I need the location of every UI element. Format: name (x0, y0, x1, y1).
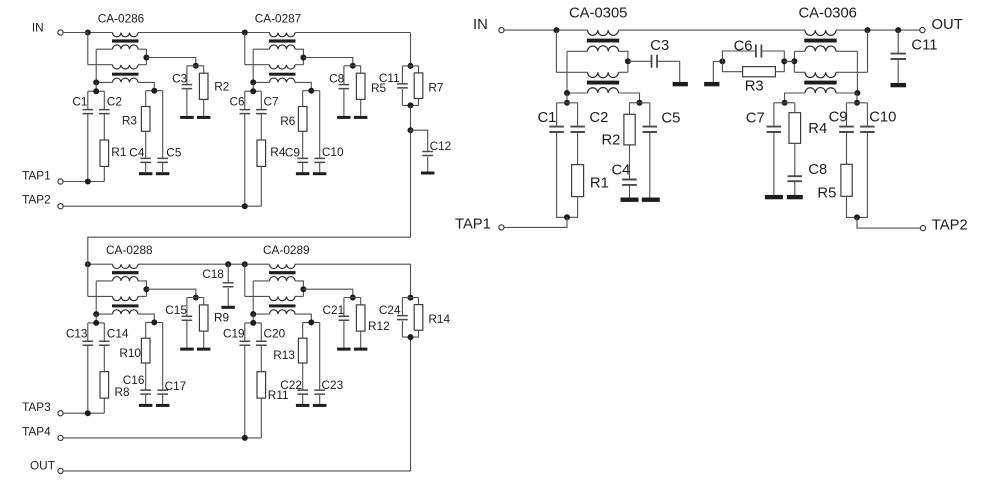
transformer CA-0286 (88, 33, 155, 91)
capacitor C7 (256, 91, 279, 140)
wire input rail row CA-0286 (88, 32, 113, 34)
svg-text:C10: C10 (322, 145, 344, 159)
node R10/C17 rail (146, 319, 163, 325)
CA-0306 core lower bar (804, 81, 836, 85)
ground under C17 (156, 404, 170, 407)
CA-0289 left winding vertical wire (252, 281, 254, 314)
capacitor C8 (right) (788, 143, 828, 195)
transformer CA-0306 (785, 30, 868, 102)
CA-0289 core upper bar (269, 271, 296, 274)
wire lower rail down to C24/R14 (410, 264, 412, 297)
ground under C4 (139, 172, 153, 175)
CA-0287 left winding vertical wire (252, 49, 254, 82)
CA-0287 primary winding (270, 33, 296, 37)
capacitor C21 (323, 298, 350, 348)
CA-0305 tertiary outer lead wire (619, 93, 640, 103)
CA-0286 primary winding (113, 33, 139, 37)
capacitor C10 (right) (857, 103, 896, 218)
CA-0287 tertiary winding (270, 78, 296, 82)
ground under C5 (right) (642, 198, 660, 202)
transformer CA-0287 (245, 33, 311, 91)
CA-0289 core lower bar (269, 304, 296, 307)
CA-0288 secondary winding upper (113, 277, 139, 281)
ground under C8 (337, 116, 351, 119)
CA-0306 secondary winding lower (805, 72, 836, 77)
node C24/R14 top (402, 295, 418, 301)
resistor R13 (273, 322, 307, 363)
svg-text:C7: C7 (746, 111, 765, 127)
ground under C8 (787, 195, 803, 199)
CA-0289 secondary winding lower (270, 296, 296, 300)
wire TAP1 (63, 181, 104, 183)
wire IN rail (right circuit) (504, 29, 588, 31)
CA-0305 core upper bar (587, 39, 619, 43)
wire IN lead (63, 32, 88, 34)
node C11/R7 top (402, 63, 418, 69)
svg-text:R9: R9 (214, 311, 229, 325)
svg-text:C17: C17 (165, 379, 187, 393)
svg-text:C1: C1 (538, 110, 557, 126)
svg-text:R1: R1 (590, 175, 609, 191)
node C15/R9 junction (187, 295, 204, 301)
svg-text:C5: C5 (661, 111, 680, 127)
capacitor C7 (right) (746, 103, 781, 195)
CA-0305 secondary winding lower (588, 72, 619, 78)
node rail/CA-0286 (85, 30, 91, 36)
svg-text:C4: C4 (612, 162, 631, 178)
CA-0288 tap node (143, 286, 149, 292)
capacitor C5 (right) (643, 103, 681, 198)
svg-text:R5: R5 (817, 186, 836, 202)
capacitor C6 (right) (722, 38, 784, 61)
capacitor C19 (223, 323, 250, 438)
CA-0289 tertiary left node (250, 311, 256, 317)
CA-0287 secondary winding lower (270, 65, 296, 69)
node C1/C2 rail (right) (557, 93, 578, 106)
capacitor C18 (202, 264, 233, 306)
svg-text:C11: C11 (911, 38, 937, 54)
CA-0306 winding vertical wire (856, 51, 858, 93)
ground under C22 (296, 404, 310, 407)
svg-text:C1: C1 (72, 95, 87, 109)
svg-text:C4: C4 (129, 145, 145, 159)
CA-0289 secondary loop wires (253, 280, 269, 282)
capacitor C20 (256, 323, 286, 372)
svg-text:CA-0286: CA-0286 (98, 12, 145, 26)
capacitor C1 (72, 91, 93, 181)
capacitor C3 (172, 66, 192, 116)
capacitor C23 (314, 322, 343, 404)
svg-text:C20: C20 (264, 326, 286, 340)
CA-0305 tertiary winding (588, 88, 619, 93)
svg-text:C15: C15 (165, 303, 187, 317)
CA-0286 tertiary right lead wire (138, 82, 154, 90)
svg-text:R2: R2 (602, 133, 621, 149)
node C13/C14 rail (88, 314, 105, 326)
svg-text:C14: C14 (107, 326, 129, 340)
node C3/R2 junction (187, 63, 204, 69)
svg-text:R1: R1 (111, 145, 126, 159)
node R5/C10/TAP2 junction (854, 214, 860, 220)
capacitor C15 (165, 298, 192, 348)
svg-text:R3: R3 (122, 113, 138, 127)
svg-text:C21: C21 (323, 303, 345, 317)
CA-0287 secondary loop wires (253, 48, 269, 50)
svg-text:TAP2: TAP2 (22, 193, 51, 207)
svg-text:TAP1: TAP1 (22, 169, 51, 183)
CA-0288 primary winding (113, 264, 139, 268)
svg-text:C8: C8 (808, 162, 827, 178)
svg-text:CA-0305: CA-0305 (569, 6, 627, 22)
svg-text:C8: C8 (329, 72, 345, 86)
terminal OUT (left circuit) (58, 468, 63, 473)
CA-0305 tap node (625, 58, 631, 64)
ground under C7 (765, 195, 783, 199)
CA-0288 secondary winding lower (113, 296, 139, 300)
svg-text:R2: R2 (214, 80, 229, 94)
ground under C12 (421, 172, 435, 175)
wire TAP2 (63, 205, 261, 207)
node rail/C11 (right) (895, 27, 901, 33)
resistor R1 (right) (567, 165, 609, 218)
CA-0289 secondary winding upper (270, 277, 296, 281)
resistor R4 (right) (789, 103, 827, 144)
CA-0306 tertiary inner node (854, 90, 860, 96)
capacitor C11 (379, 66, 408, 106)
svg-text:TAP3: TAP3 (22, 400, 51, 414)
CA-0288 left winding vertical wire (95, 281, 97, 314)
node C6/R3 right (781, 58, 787, 64)
CA-0287 secondary winding upper (270, 45, 296, 49)
svg-text:TAP4: TAP4 (22, 424, 51, 438)
CA-0287 tertiary left node (250, 79, 256, 85)
CA-0306 input vertical wire (867, 30, 869, 72)
svg-text:C3: C3 (172, 72, 188, 86)
svg-text:C23: C23 (322, 378, 344, 392)
capacitor C1 (right) (538, 103, 568, 218)
svg-text:C13: C13 (66, 326, 88, 340)
terminal TAP3 (58, 411, 63, 416)
resistor R1 (100, 140, 126, 182)
wire tap to C3/R2 (146, 58, 195, 66)
CA-0306 tertiary winding (805, 88, 836, 93)
svg-text:C5: C5 (166, 145, 182, 159)
svg-text:C9: C9 (829, 109, 848, 125)
CA-0306 secondary winding upper (805, 46, 836, 51)
svg-text:R12: R12 (368, 319, 390, 333)
ground under R9 (197, 348, 211, 351)
capacitor C17 (157, 322, 186, 404)
CA-0288 core lower bar (112, 304, 139, 307)
transformer CA-0288 (88, 264, 155, 322)
resistor R2 (199, 66, 229, 116)
node C7/R4 rail (774, 100, 795, 106)
CA-0305 primary winding (588, 30, 619, 35)
CA-0287 tertiary right lead wire (295, 82, 311, 90)
svg-text:R6: R6 (280, 114, 296, 128)
node C24/R14 bottom (402, 334, 418, 340)
CA-0288 input vertical wire (87, 264, 89, 296)
resistor R4 (257, 140, 286, 206)
wire TAP4 (63, 437, 261, 439)
svg-text:C6: C6 (734, 38, 753, 54)
ground under C3 (180, 116, 194, 119)
CA-0286 core upper bar (112, 39, 139, 42)
node C6/R3 left (719, 58, 725, 64)
svg-text:CA-0306: CA-0306 (799, 6, 857, 22)
wire TAP3 (63, 412, 104, 414)
svg-text:CA-0288: CA-0288 (106, 243, 153, 257)
ground stub for C6/R3 (704, 61, 722, 86)
capacitor C12 (411, 130, 452, 171)
svg-text:R14: R14 (428, 312, 450, 326)
CA-0305 secondary winding upper (588, 46, 619, 52)
node rail/CA-0289 (242, 261, 248, 267)
ground under C11 (right) (891, 83, 907, 87)
ground under C3 (right) (673, 82, 688, 86)
svg-text:C16: C16 (123, 373, 145, 387)
svg-text:R7: R7 (428, 81, 443, 95)
terminal TAP1 (58, 179, 63, 184)
svg-text:IN: IN (32, 21, 44, 35)
CA-0289 primary winding (270, 264, 296, 268)
ground under C18 (221, 306, 235, 309)
resistor R3 (122, 91, 150, 132)
resistor R3 (right) (722, 61, 784, 94)
capacitor C24 (379, 298, 408, 338)
CA-0306 secondary loop wires (836, 50, 857, 52)
svg-text:OUT: OUT (932, 17, 963, 33)
svg-text:TAP1: TAP1 (455, 217, 491, 233)
CA-0305 winding vertical wire (566, 51, 568, 93)
svg-text:TAP2: TAP2 (932, 218, 968, 234)
capacitor C4 (129, 131, 151, 172)
svg-text:C18: C18 (202, 267, 224, 281)
ground under C15 (180, 348, 194, 351)
node C9/C10 rail (847, 93, 868, 106)
CA-0305 secondary loop wires (567, 50, 588, 52)
capacitor C10 (314, 91, 344, 173)
wire upper block output to lower block input (88, 130, 411, 264)
terminal TAP2 (right) (920, 226, 925, 231)
wire rail down to C11/R7 (410, 33, 412, 66)
CA-0286 left winding vertical wire (95, 49, 97, 82)
terminal TAP2 (58, 204, 63, 209)
CA-0288 tertiary right lead wire (138, 314, 154, 322)
svg-text:R13: R13 (273, 348, 295, 362)
svg-text:R4: R4 (808, 121, 827, 137)
resistor R5 (right) (817, 164, 857, 217)
CA-0289 input vertical wire (244, 264, 246, 296)
CA-0288 tertiary left node (93, 311, 99, 317)
CA-0286 tap node (143, 55, 149, 61)
transformer CA-0289 (245, 264, 311, 322)
CA-0286 tertiary left node (93, 79, 99, 85)
resistor R11 (257, 372, 289, 438)
node C1/C2 rail (88, 82, 105, 94)
svg-text:OUT: OUT (30, 459, 55, 473)
CA-0286 secondary loop wires (96, 48, 112, 50)
ground under C5 (156, 172, 170, 175)
capacitor C2 (99, 91, 122, 140)
CA-0289 tertiary right lead wire (295, 314, 311, 322)
node C21/R12 junction (344, 295, 361, 301)
node R2/C5 rail (right) (630, 100, 650, 106)
CA-0287 input vertical wire (244, 33, 246, 65)
svg-text:C12: C12 (430, 139, 452, 153)
CA-0287 tap node (300, 55, 306, 61)
capacitor C14 (99, 323, 129, 372)
capacitor C8 (329, 66, 349, 116)
capacitor C11 (right) (891, 30, 938, 83)
node R13/C23 rail (303, 319, 320, 325)
CA-0286 input vertical wire (87, 33, 89, 65)
resistor R2 (right) (602, 103, 636, 149)
terminal IN (right circuit) (499, 28, 504, 33)
CA-0288 tertiary winding (113, 310, 139, 314)
CA-0286 core lower bar (112, 73, 139, 76)
CA-0306 primary winding (805, 30, 836, 35)
node C1/R1/TAP1 junction (564, 214, 570, 220)
svg-text:C6: C6 (230, 95, 246, 109)
svg-text:R10: R10 (119, 346, 141, 360)
resistor R5 (356, 66, 386, 116)
capacitor C5 (157, 91, 182, 173)
capacitor C4 (right) (612, 145, 637, 198)
capacitor C13 (66, 323, 93, 413)
capacitor C2 (right) (570, 103, 608, 165)
transformer CA-0305 (556, 30, 639, 102)
node TAP1/C1 (85, 179, 91, 185)
svg-text:C11: C11 (379, 71, 400, 85)
svg-text:R3: R3 (745, 78, 764, 94)
ground under R2 (197, 116, 211, 119)
node C8/R5 junction (344, 63, 361, 69)
svg-text:C3: C3 (650, 38, 669, 54)
wire tap to C8/R5 (303, 58, 352, 66)
node C12 junction (408, 127, 414, 133)
CA-0306 core upper bar (804, 39, 836, 43)
node TAP4/C19 (242, 435, 248, 441)
node rail/CA-0305 (553, 27, 559, 33)
resistor R12 (356, 298, 389, 348)
CA-0305 tertiary inner node (564, 90, 570, 96)
capacitor C16 (123, 363, 151, 404)
svg-text:C24: C24 (379, 303, 401, 317)
ground under C4 (right) (621, 198, 639, 202)
ground under C16 (139, 404, 153, 407)
wire TAP2 (right) (857, 217, 921, 228)
CA-0288 secondary loop wires (96, 280, 112, 282)
node C6/C7 rail (245, 82, 261, 94)
resistor R7 (414, 66, 443, 106)
svg-text:CA-0289: CA-0289 (263, 243, 310, 257)
wire input rail row CA-0288 (88, 263, 113, 265)
svg-text:CA-0287: CA-0287 (255, 12, 302, 26)
wire TAP1 (right) (504, 217, 567, 227)
ground under C10 (313, 172, 327, 175)
node R3/C5 rail (146, 88, 163, 94)
ground under R5 (354, 116, 368, 119)
svg-text:C2: C2 (589, 110, 608, 126)
svg-text:C19: C19 (223, 326, 245, 340)
CA-0306 tertiary outer lead wire (785, 93, 805, 103)
CA-0305 input vertical wire (555, 30, 557, 72)
node rail/CA-0287 (242, 30, 248, 36)
ground under C21 (337, 348, 351, 351)
terminal IN (left circuit) (58, 30, 63, 35)
capacitor C22 (280, 363, 308, 404)
resistor R8 (100, 372, 130, 414)
wire C6/R3 to CA-0306 tap (784, 60, 794, 62)
resistor R10 (119, 322, 150, 363)
CA-0288 core upper bar (112, 271, 139, 274)
capacitor C6 (230, 91, 251, 206)
wire to C12 junction (410, 105, 412, 130)
CA-0287 core upper bar (269, 39, 296, 42)
capacitor C9 (right) (829, 103, 854, 165)
node C18/rail (225, 261, 231, 267)
svg-text:C10: C10 (869, 109, 896, 125)
svg-text:C9: C9 (285, 146, 300, 160)
capacitor C9 (285, 131, 308, 172)
svg-text:C2: C2 (107, 95, 122, 109)
capacitor C3 (right) (628, 38, 680, 82)
resistor R14 (414, 298, 450, 338)
CA-0286 tertiary winding (113, 78, 139, 82)
wire tap to C15/R9 (146, 289, 195, 297)
ground under C23 (313, 404, 327, 407)
svg-text:C7: C7 (264, 95, 279, 109)
svg-text:C22: C22 (280, 378, 302, 392)
wire tap to C21/R12 (303, 289, 352, 297)
terminal TAP4 (58, 435, 63, 440)
node R6/C10 rail (303, 88, 320, 94)
CA-0286 secondary winding lower (113, 65, 139, 69)
ground under C9 (296, 172, 310, 175)
CA-0306 tap node (791, 58, 797, 64)
terminal TAP1 (right) (499, 225, 504, 230)
node C11/R7 bottom (402, 102, 418, 108)
svg-text:R4: R4 (270, 145, 286, 159)
terminal OUT (right circuit) (920, 28, 925, 33)
node TAP3/C13 (85, 410, 91, 416)
node rail/CA-0288 (85, 261, 91, 267)
CA-0286 secondary winding upper (113, 45, 139, 49)
CA-0287 core lower bar (269, 73, 296, 76)
node TAP2/C6 (242, 203, 248, 209)
node C19/C20 rail (245, 314, 261, 326)
svg-text:IN: IN (473, 17, 488, 33)
CA-0289 tap node (300, 286, 306, 292)
CA-0289 tertiary winding (270, 310, 296, 314)
wire OUT to R14/C24 (63, 337, 411, 471)
CA-0305 core lower bar (587, 81, 619, 85)
ground under R12 (354, 348, 368, 351)
resistor R9 (199, 298, 229, 348)
resistor R6 (280, 91, 307, 132)
node rail/CA-0306 (865, 27, 871, 33)
